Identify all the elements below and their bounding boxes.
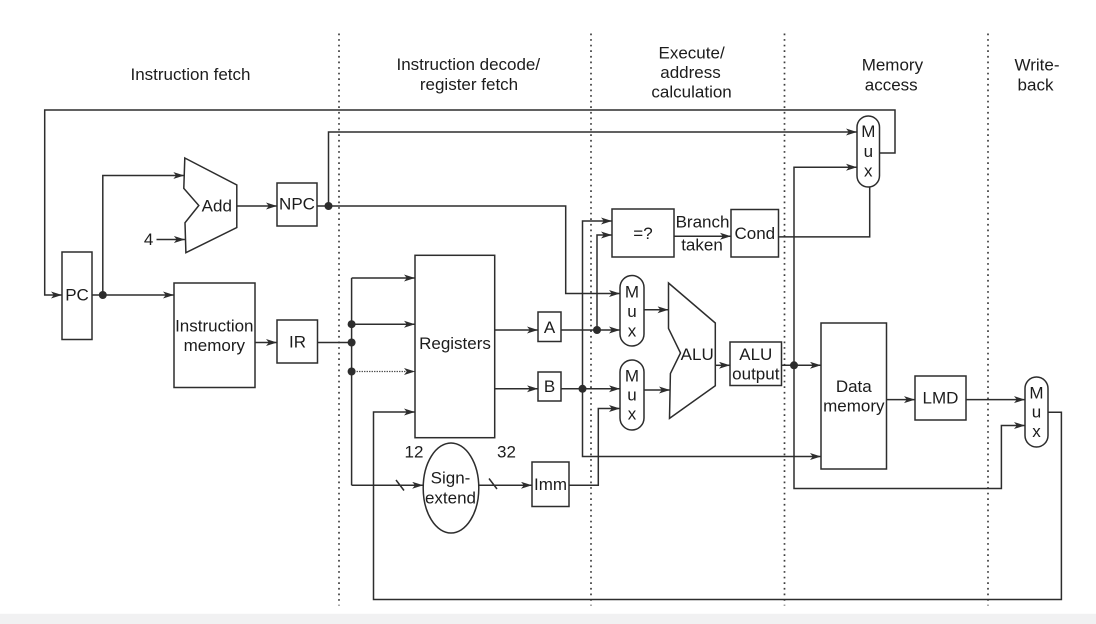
svg-text:NPC: NPC xyxy=(279,195,315,214)
block: Data memory xyxy=(821,323,887,469)
stage separator 1 xyxy=(338,34,340,606)
stage header: Write-back xyxy=(1014,55,1059,94)
mux: write-back mux xyxy=(1025,377,1048,447)
svg-text:Memory: Memory xyxy=(862,55,924,74)
wire: NPC up and across to top mux input 1 xyxy=(329,132,858,206)
svg-text:Write-: Write- xyxy=(1014,55,1059,74)
svg-text:M: M xyxy=(861,122,875,141)
block: Cond xyxy=(731,210,779,258)
svg-text:memory: memory xyxy=(823,397,885,416)
svg-text:calculation: calculation xyxy=(651,83,731,102)
svg-text:x: x xyxy=(628,321,637,340)
stage header: Instruction decode/register fetch xyxy=(396,55,540,94)
svg-text:B: B xyxy=(544,377,555,396)
wire: mux2 to ALU xyxy=(644,389,670,391)
svg-text:ALU: ALU xyxy=(681,345,714,364)
svg-text:Branch: Branch xyxy=(676,213,730,232)
mux: top PC mux xyxy=(857,116,880,187)
svg-text:Instruction: Instruction xyxy=(175,317,253,336)
bottom gray strip xyxy=(0,614,1096,624)
junction dot bus lower xyxy=(348,368,356,376)
wire: B up to zero test upper input xyxy=(583,221,613,389)
register ALU output xyxy=(730,342,782,386)
svg-text:32: 32 xyxy=(497,443,516,462)
svg-text:extend: extend xyxy=(425,488,476,507)
svg-text:u: u xyxy=(864,142,873,161)
stage separator 3 xyxy=(784,34,786,606)
wire: sign-extend to Imm xyxy=(479,484,532,486)
register A xyxy=(538,312,561,342)
junction dot on NPC output xyxy=(325,202,333,210)
adder Add xyxy=(184,158,237,253)
wire: B to ALU mux2 input 1 xyxy=(561,388,620,390)
svg-text:x: x xyxy=(864,162,873,181)
wire: =? to Cond xyxy=(674,235,731,237)
wire: mux1 to ALU xyxy=(644,309,669,311)
junction dot on PC output xyxy=(99,291,107,299)
svg-text:Data: Data xyxy=(836,377,872,396)
svg-text:Instruction fetch: Instruction fetch xyxy=(130,65,250,84)
register B xyxy=(538,372,561,401)
wire: IR output to bus xyxy=(318,342,352,344)
block: Registers xyxy=(415,255,495,437)
junction dot on A output xyxy=(593,326,601,334)
mux: ALU input mux 2 xyxy=(620,360,644,430)
register IR xyxy=(277,320,318,363)
wire: Add to NPC xyxy=(237,205,277,207)
svg-text:Add: Add xyxy=(202,197,232,216)
svg-text:PC: PC xyxy=(65,286,89,305)
wire: data memory to LMD xyxy=(887,399,916,401)
mux: ALU input mux 1 xyxy=(620,276,644,347)
bus width tick 32 xyxy=(489,479,497,490)
svg-text:Sign-: Sign- xyxy=(431,469,471,488)
wire: IR bus vertical xyxy=(351,278,353,485)
junction dot on B output xyxy=(579,385,587,393)
ALU xyxy=(669,283,716,418)
wire: PC up to Add top input xyxy=(103,176,185,296)
block: Instruction memory xyxy=(174,283,255,388)
wire: Registers to A xyxy=(495,329,538,331)
wire: A up to zero test lower input xyxy=(597,235,612,330)
svg-text:memory: memory xyxy=(184,336,246,355)
wire: bus down to sign-extend xyxy=(352,484,424,486)
svg-text:M: M xyxy=(625,367,639,386)
wire: WB mux output around bottom to Registers write port xyxy=(374,412,1062,600)
svg-text:u: u xyxy=(627,386,636,405)
svg-text:Cond: Cond xyxy=(734,224,775,243)
stage header: Execute/address calculation xyxy=(651,44,731,102)
wire: PC to instruction memory xyxy=(92,294,174,296)
wire: Registers to B xyxy=(495,388,538,390)
label: Branch taken xyxy=(676,213,730,255)
svg-text:A: A xyxy=(544,318,556,337)
svg-text:address: address xyxy=(660,63,720,82)
register LMD xyxy=(915,376,966,420)
wire: ALU to ALU output register xyxy=(715,364,730,366)
junction dot bus middle xyxy=(348,339,356,347)
svg-text:12: 12 xyxy=(405,443,424,462)
svg-text:taken: taken xyxy=(681,236,723,255)
wire: B down and right to data memory write input xyxy=(583,389,822,457)
ellipse: Sign-extend xyxy=(423,443,479,533)
wire: ALU output to data memory address xyxy=(782,364,822,366)
wire: bus to Registers input 3 (dashed) xyxy=(352,371,415,373)
svg-text:u: u xyxy=(627,302,636,321)
svg-text:x: x xyxy=(1032,422,1041,441)
svg-text:4: 4 xyxy=(144,230,153,249)
wire: PC feedback from top mux output around top of page into PC xyxy=(45,110,895,295)
svg-text:M: M xyxy=(625,283,639,302)
svg-text:Registers: Registers xyxy=(419,334,491,353)
wire: ALU output up to top mux input 2 xyxy=(794,167,857,365)
svg-text:=?: =? xyxy=(633,224,652,243)
register NPC xyxy=(277,183,317,226)
wire: ALU output down and around to WB mux input 2 xyxy=(794,365,1025,488)
register PC xyxy=(62,252,92,340)
svg-text:x: x xyxy=(628,405,637,424)
wire: Cond output to top mux select xyxy=(779,187,870,237)
svg-text:Instruction decode/: Instruction decode/ xyxy=(396,55,540,74)
svg-text:IR: IR xyxy=(289,333,306,352)
svg-text:Imm: Imm xyxy=(534,475,567,494)
svg-text:back: back xyxy=(1018,76,1054,95)
wire: instruction memory to IR xyxy=(255,342,277,344)
wire: bus to Registers input 2 xyxy=(352,323,415,325)
stage separator 2 xyxy=(590,34,592,606)
wire: A to ALU mux1 input 2 xyxy=(561,329,620,331)
svg-text:output: output xyxy=(732,365,780,384)
wire: LMD to WB mux input 1 xyxy=(966,399,1025,401)
register Imm xyxy=(532,462,569,507)
junction dot on ALU output xyxy=(790,361,798,369)
svg-text:access: access xyxy=(865,76,918,95)
svg-text:M: M xyxy=(1029,383,1043,402)
comparator =? xyxy=(612,209,674,257)
wire: bus to Registers input 1 xyxy=(352,277,415,279)
stage separator 4 xyxy=(987,34,989,606)
svg-text:LMD: LMD xyxy=(923,389,959,408)
junction dot bus upper xyxy=(348,320,356,328)
svg-text:u: u xyxy=(1032,403,1041,422)
wire: Imm right then up into ALU mux2 input 2 xyxy=(569,409,620,486)
svg-text:register fetch: register fetch xyxy=(420,75,518,94)
wire: NPC right then down to ALU mux1 input 1 xyxy=(317,206,620,294)
bus width tick 12 xyxy=(396,480,404,491)
stage header: Memory access xyxy=(862,55,924,94)
svg-text:ALU: ALU xyxy=(739,345,772,364)
wire: 4 into Add bottom input xyxy=(157,239,185,241)
svg-text:Execute/: Execute/ xyxy=(659,44,725,63)
